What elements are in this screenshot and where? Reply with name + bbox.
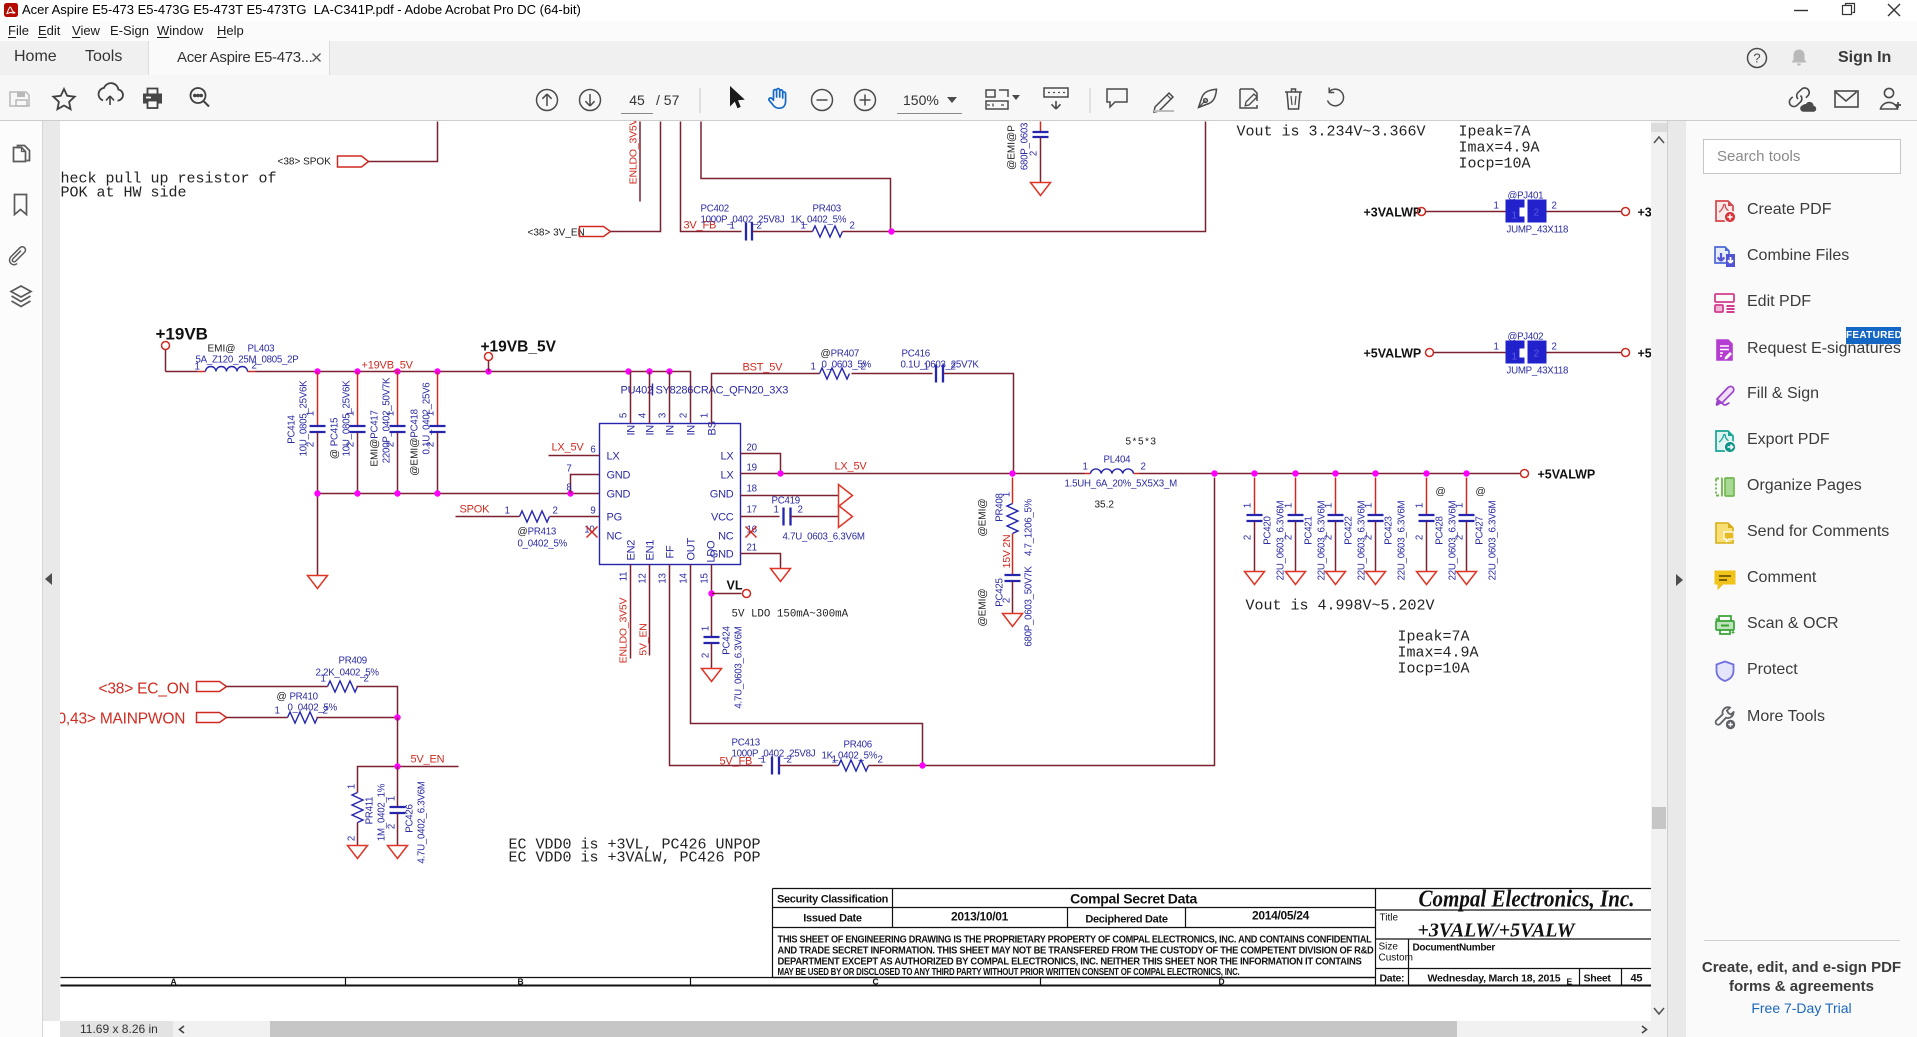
svg-text:1: 1 — [924, 362, 929, 373]
capacitor PC427 — [1455, 478, 1499, 585]
note 5V LDO — [732, 609, 849, 621]
off-page connector EC_ON — [99, 681, 227, 698]
svg-text:1000P_0402_25V8J: 1000P_0402_25V8J — [732, 749, 816, 760]
wire pin21 + ground — [741, 554, 791, 582]
svg-text:GND: GND — [607, 470, 631, 482]
svg-text:PL404: PL404 — [1104, 455, 1132, 466]
svg-text:45: 45 — [629, 92, 645, 108]
off-page connector MAINPWON — [58, 711, 227, 728]
ground PR411 — [348, 846, 368, 859]
svg-text:45: 45 — [1631, 973, 1643, 985]
svg-text:Date:: Date: — [1380, 973, 1405, 985]
capacitor PC417 — [370, 372, 406, 494]
svg-text:BS: BS — [707, 421, 719, 435]
svg-text:1: 1 — [1512, 352, 1518, 363]
svg-text:IN: IN — [645, 425, 657, 436]
svg-text:@ PR410: @ PR410 — [277, 692, 319, 703]
svg-text:Compal Secret Data: Compal Secret Data — [1070, 891, 1197, 907]
svg-text:2: 2 — [252, 361, 257, 372]
svg-text:EN2: EN2 — [626, 540, 638, 561]
capacitor PC419 + VCC arrow — [741, 496, 865, 543]
wire SPOK — [369, 122, 438, 162]
svg-text:1: 1 — [774, 505, 779, 516]
inductor PL404 — [1065, 437, 1178, 511]
capacitor PC424 — [701, 625, 745, 708]
svg-text:1: 1 — [505, 506, 510, 517]
svg-text:2: 2 — [1415, 535, 1426, 540]
capacitor PC421 — [1284, 478, 1328, 585]
svg-text:THIS SHEET OF ENGINEERING DRAW: THIS SHEET OF ENGINEERING DRAWING IS THE… — [778, 935, 1372, 946]
svg-text:1: 1 — [321, 674, 326, 685]
resistor PR406 — [822, 740, 883, 772]
svg-text:ENLDO_3V5V: ENLDO_3V5V — [628, 121, 640, 184]
svg-text:680P_0603_50V7K: 680P_0603_50V7K — [1024, 566, 1035, 647]
svg-text:1: 1 — [1324, 503, 1335, 508]
svg-text:E: E — [1567, 977, 1573, 987]
svg-text:1: 1 — [730, 221, 735, 232]
power node +5VALWP rail — [1521, 468, 1596, 482]
jumper @PJ402 — [1364, 332, 1661, 377]
svg-text:IN: IN — [626, 425, 638, 436]
BST net: pin1 + resistor @PR407 + capacitor PC416 — [712, 349, 1014, 474]
svg-text:2014/05/24: 2014/05/24 — [1252, 909, 1310, 923]
svg-text:1: 1 — [832, 755, 837, 766]
svg-text:PC428: PC428 — [1435, 516, 1446, 544]
svg-text:+19VB_5V: +19VB_5V — [362, 360, 414, 372]
svg-text:1000P_0402_25V8J: 1000P_0402_25V8J — [701, 215, 785, 226]
svg-text:2: 2 — [346, 442, 357, 447]
svg-text:20: 20 — [747, 443, 758, 454]
svg-text:4.7U_0603_6.3V6M: 4.7U_0603_6.3V6M — [783, 532, 865, 543]
svg-text:+5V: +5V — [1638, 347, 1652, 361]
ground PC426 — [388, 846, 408, 859]
svg-text:FF: FF — [665, 545, 677, 558]
svg-text:Vout is 4.998V~5.202V: Vout is 4.998V~5.202V — [1246, 598, 1435, 615]
capacitor PC422 — [1324, 478, 1368, 585]
svg-text:1: 1 — [426, 411, 437, 416]
svg-text:13: 13 — [658, 573, 669, 583]
svg-text:1.5UH_6A_20%_5X5X3_M: 1.5UH_6A_20%_5X5X3_M — [1065, 479, 1178, 490]
svg-text:A: A — [171, 977, 177, 987]
svg-text:2: 2 — [426, 442, 437, 447]
wire +19VB rail — [166, 368, 691, 423]
svg-text:Iocp=10A: Iocp=10A — [1398, 661, 1470, 678]
svg-text:Imax=4.9A: Imax=4.9A — [1398, 645, 1479, 662]
title block — [773, 889, 1656, 986]
svg-text:1: 1 — [701, 626, 712, 631]
svg-text:1: 1 — [1415, 503, 1426, 508]
svg-text:2: 2 — [1552, 201, 1557, 212]
svg-text:8: 8 — [566, 483, 571, 494]
svg-text:Size: Size — [1379, 942, 1399, 953]
svg-text:4: 4 — [638, 412, 649, 418]
svg-text:PC422: PC422 — [1344, 516, 1355, 544]
svg-text:2: 2 — [387, 824, 398, 829]
svg-text:2: 2 — [1455, 535, 1466, 540]
svg-text:Compal Electronics, Inc.: Compal Electronics, Inc. — [1419, 887, 1635, 913]
svg-text:1: 1 — [1455, 503, 1466, 508]
svg-text:+5VALWP: +5VALWP — [1538, 468, 1596, 482]
svg-text:1: 1 — [346, 411, 357, 416]
svg-text:1: 1 — [1364, 503, 1375, 508]
wire pin14 OUT — [691, 565, 923, 766]
capacitor PC426 — [387, 767, 428, 864]
capacitor PC420 — [1243, 478, 1287, 585]
svg-text:2: 2 — [553, 506, 558, 517]
svg-text:5: 5 — [619, 413, 630, 418]
power node +19VB — [156, 325, 208, 372]
IC PU402 SY8286CRAC — [600, 384, 789, 565]
svg-text:@EMI@: @EMI@ — [978, 498, 989, 536]
net label LX_5V pin6 — [549, 442, 600, 456]
svg-text:@EMI@: @EMI@ — [978, 588, 989, 626]
svg-text:Security Classification: Security Classification — [777, 894, 889, 906]
svg-text:2: 2 — [323, 706, 328, 717]
svg-text:2: 2 — [951, 362, 956, 373]
svg-text:EC VDD0 is +3VALW, PC426 POP: EC VDD0 is +3VALW, PC426 POP — [509, 850, 761, 867]
svg-text:5A_Z120_25M_0805_2P: 5A_Z120_25M_0805_2P — [196, 355, 299, 366]
svg-text:1: 1 — [386, 411, 397, 416]
svg-text:1: 1 — [1494, 201, 1499, 212]
jumper @PJ401 — [1364, 191, 1661, 236]
svg-text:C: C — [873, 977, 879, 987]
page border zones — [61, 977, 1656, 987]
resistor PR411 — [347, 783, 388, 845]
net stub ENLDO_3V5V — [628, 118, 641, 201]
net label SPOK + resistor @PR413 — [456, 504, 600, 550]
resistor @PR410 — [227, 692, 401, 724]
svg-text:1: 1 — [1512, 211, 1518, 222]
svg-text:JUMP_43X118: JUMP_43X118 — [1507, 225, 1569, 236]
svg-text:@EMI@PC418: @EMI@PC418 — [410, 409, 421, 475]
svg-text:5V_EN: 5V_EN — [638, 623, 650, 655]
svg-text:2: 2 — [1141, 462, 1146, 473]
svg-text:GND: GND — [710, 489, 734, 501]
svg-text:2: 2 — [798, 505, 803, 516]
wire feedback to rail — [869, 478, 1215, 769]
svg-text:2: 2 — [364, 674, 369, 685]
svg-text:2: 2 — [306, 442, 317, 447]
svg-text:680P_0603: 680P_0603 — [1020, 123, 1031, 170]
pin12 stub 5V_EN — [638, 565, 650, 656]
svg-text:VL: VL — [727, 579, 743, 593]
svg-text:DocumentNumber: DocumentNumber — [1413, 943, 1496, 954]
svg-text:5V_EN: 5V_EN — [411, 754, 445, 766]
svg-text:SY8286CRAC_QFN20_3X3: SY8286CRAC_QFN20_3X3 — [656, 385, 789, 397]
ground top cap — [1031, 183, 1051, 196]
svg-text:14: 14 — [679, 573, 690, 584]
svg-text:<38> SPOK: <38> SPOK — [278, 157, 332, 168]
svg-text:PR409: PR409 — [339, 656, 367, 667]
svg-text:Wednesday, March 18, 2015: Wednesday, March 18, 2015 — [1428, 973, 1561, 985]
collapse arrow right — [1674, 573, 1684, 587]
svg-text:1: 1 — [347, 784, 358, 789]
svg-text:3: 3 — [658, 413, 669, 418]
svg-text:21: 21 — [747, 543, 757, 554]
svg-text:PL403: PL403 — [248, 344, 275, 355]
svg-text:SPOK: SPOK — [460, 504, 491, 516]
svg-text:@PR407: @PR407 — [821, 349, 860, 360]
capacitor @EMI@ 680P top — [1007, 122, 1049, 183]
capacitor PC423 — [1364, 478, 1408, 585]
svg-text:+5VALWP: +5VALWP — [1364, 347, 1422, 361]
wire GND bus — [314, 490, 599, 575]
capacitor PC418 — [410, 372, 446, 494]
net 5V_EN junction — [358, 718, 459, 793]
wire PR403 right + feedback top — [701, 122, 1206, 235]
svg-text:1: 1 — [1243, 503, 1254, 508]
svg-text:2: 2 — [386, 442, 397, 447]
svg-text:1: 1 — [801, 221, 806, 232]
wire pin13 FF feedback — [670, 565, 763, 766]
svg-text:22U_0603_6.3V6M: 22U_0603_6.3V6M — [1488, 500, 1499, 580]
svg-text:2: 2 — [347, 836, 358, 841]
svg-text:2: 2 — [1284, 535, 1295, 540]
svg-text:5V LDO 150mA~300mA: 5V LDO 150mA~300mA — [732, 609, 849, 621]
svg-text:PU402: PU402 — [621, 385, 654, 397]
svg-text:PC426: PC426 — [405, 804, 416, 832]
svg-text:19: 19 — [747, 463, 757, 474]
svg-text:NC: NC — [718, 531, 734, 543]
svg-text:35.2: 35.2 — [1095, 500, 1115, 511]
svg-text:Ipeak=7A: Ipeak=7A — [1398, 629, 1470, 646]
inductor PL403 — [195, 344, 299, 373]
svg-text:12: 12 — [638, 573, 649, 583]
svg-text:LX: LX — [721, 470, 735, 482]
svg-text:@PR413: @PR413 — [518, 527, 557, 538]
svg-text:4.7U_0402_6.3V6M: 4.7U_0402_6.3V6M — [417, 781, 428, 863]
svg-text:2: 2 — [1243, 535, 1254, 540]
svg-text:4.7U_0603_6.3V6M: 4.7U_0603_6.3V6M — [734, 626, 745, 708]
svg-text:PC402: PC402 — [701, 204, 729, 215]
svg-text:2: 2 — [701, 653, 712, 658]
ground PC425 — [1003, 614, 1023, 627]
svg-text:4.7_1206_5%: 4.7_1206_5% — [1024, 498, 1035, 556]
svg-text:1: 1 — [1083, 462, 1088, 473]
power node +19VB_5V — [481, 339, 557, 372]
svg-text:1: 1 — [1284, 503, 1295, 508]
svg-text:5*5*3: 5*5*3 — [1126, 437, 1158, 448]
net label 15V_2N — [1001, 534, 1013, 575]
note EC VDD0 — [509, 837, 761, 867]
off-page connector SPOK — [278, 156, 369, 168]
net label 5V_FB — [720, 756, 753, 768]
svg-text:2: 2 — [878, 755, 883, 766]
wire pin18 GND arrow — [741, 485, 853, 507]
svg-text:PR411: PR411 — [365, 797, 376, 825]
svg-text:LX_5V: LX_5V — [835, 461, 868, 473]
svg-text:1M_0402_1%: 1M_0402_1% — [377, 783, 388, 841]
svg-text:+19VB_5V: +19VB_5V — [481, 339, 557, 356]
svg-text:2: 2 — [1029, 151, 1040, 156]
svg-text:NC: NC — [607, 531, 623, 543]
note: check pull up resistor — [52, 171, 277, 202]
svg-text:@: @ — [1476, 487, 1486, 498]
svg-text:Custom: Custom — [1379, 953, 1413, 964]
capacitor PC413 — [732, 738, 839, 775]
resistor PR409 — [227, 656, 398, 718]
capacitor PC402 — [701, 204, 785, 241]
capacitor PC428 — [1415, 478, 1459, 585]
svg-text:2: 2 — [1364, 535, 1375, 540]
off-page connector 3V_EN — [528, 227, 611, 239]
svg-text:Title: Title — [1380, 913, 1399, 924]
NC pin X marks — [587, 527, 757, 538]
wire pin20 hook — [741, 454, 781, 474]
svg-text:LX: LX — [607, 451, 621, 463]
svg-text:JUMP_43X118: JUMP_43X118 — [1507, 366, 1569, 377]
svg-text:Iocp=10A: Iocp=10A — [1459, 156, 1531, 173]
svg-text:EN1: EN1 — [645, 540, 657, 561]
svg-text:2: 2 — [787, 755, 792, 766]
svg-text:@EMI@P: @EMI@P — [1007, 125, 1018, 170]
svg-text:2: 2 — [1552, 342, 1557, 353]
note Vout 4.998 — [1246, 598, 1435, 615]
svg-text:AND TRADE SECRET INFORMATION.: AND TRADE SECRET INFORMATION. THIS SHEET… — [778, 946, 1374, 957]
wire pin7 GND — [571, 475, 600, 494]
capacitor PC414 — [287, 372, 326, 494]
svg-text:@: @ — [1436, 487, 1446, 498]
svg-text:1K_0402_5%: 1K_0402_5% — [822, 751, 878, 762]
svg-text:150%: 150% — [903, 92, 939, 108]
resistor PR408 chain — [978, 478, 1035, 557]
wire 3V_EN — [611, 122, 661, 232]
svg-text:Sheet: Sheet — [1584, 973, 1612, 985]
svg-text:Imax=4.9A: Imax=4.9A — [1459, 140, 1540, 157]
svg-text:ENLDO_3V5V: ENLDO_3V5V — [618, 597, 630, 663]
svg-text:<38> EC_ON: <38> EC_ON — [99, 681, 190, 698]
svg-text:2: 2 — [1534, 208, 1540, 219]
svg-text:IN: IN — [686, 425, 698, 436]
wire 3V_FB — [681, 122, 742, 232]
svg-text:1: 1 — [387, 796, 398, 801]
resistor PR403 — [791, 204, 855, 238]
IC bottom pin numbers — [619, 572, 711, 584]
note Ipeak bottom — [1398, 629, 1479, 678]
svg-text:18: 18 — [747, 484, 757, 495]
svg-text:11: 11 — [619, 572, 630, 582]
svg-text:@ PC415: @ PC415 — [330, 418, 341, 459]
svg-text:+19VB: +19VB — [156, 325, 208, 344]
svg-text:2: 2 — [850, 221, 855, 232]
svg-text:2: 2 — [679, 413, 690, 418]
title block text — [777, 887, 1642, 985]
svg-text:?: ? — [1753, 51, 1760, 66]
svg-text:PC423: PC423 — [1384, 516, 1395, 544]
svg-text:EMI@PC417: EMI@PC417 — [370, 410, 381, 466]
svg-text:PC414: PC414 — [287, 414, 298, 443]
capacitor PC415 — [330, 372, 366, 494]
svg-text:OUT: OUT — [686, 538, 698, 561]
svg-text:BST_5V: BST_5V — [743, 362, 784, 374]
svg-text:+3V: +3V — [1638, 206, 1652, 220]
svg-text:+3VALWP: +3VALWP — [1364, 206, 1422, 220]
svg-text:IN: IN — [665, 425, 677, 436]
svg-text:<38> 3V_EN: <38> 3V_EN — [528, 228, 585, 239]
svg-text:MAY BE USED BY OR DISCLOSED TO: MAY BE USED BY OR DISCLOSED TO ANY THIRD… — [778, 967, 1240, 978]
svg-text:15: 15 — [700, 573, 711, 583]
svg-text:DEPARTMENT EXCEPT AS AUTHORIZE: DEPARTMENT EXCEPT AS AUTHORIZED BY COMPA… — [778, 957, 1363, 968]
svg-text:9: 9 — [590, 506, 595, 517]
collapse arrow left — [44, 572, 54, 586]
wire LX_5V rail — [741, 461, 1521, 477]
svg-text:2200P_0402_50V7K: 2200P_0402_50V7K — [382, 377, 393, 463]
svg-text:GND: GND — [607, 489, 631, 501]
note Vout 3.234V — [1237, 124, 1426, 141]
svg-text:1: 1 — [1494, 342, 1499, 353]
svg-text:PC420: PC420 — [1263, 515, 1274, 544]
svg-text:2: 2 — [861, 362, 866, 373]
svg-text:Issued Date: Issued Date — [803, 913, 862, 925]
svg-text:PC427: PC427 — [1475, 516, 1486, 544]
ground PC424 — [702, 669, 722, 682]
svg-text:PC413: PC413 — [732, 738, 760, 749]
svg-text:1: 1 — [275, 706, 280, 717]
svg-text:2: 2 — [1534, 349, 1540, 360]
svg-text:VCC: VCC — [711, 512, 734, 524]
svg-text:Vout is 3.234V~3.366V: Vout is 3.234V~3.366V — [1237, 124, 1426, 141]
svg-text:7: 7 — [566, 464, 571, 475]
IC side pin numbers — [566, 443, 757, 554]
svg-text:D: D — [1219, 977, 1225, 987]
svg-text:1: 1 — [306, 411, 317, 416]
svg-text:1: 1 — [761, 755, 766, 766]
svg-text:LX_5V: LX_5V — [552, 442, 585, 454]
capacitor PC425 — [978, 566, 1035, 647]
svg-text:LX: LX — [721, 451, 735, 463]
svg-text:PR406: PR406 — [844, 740, 872, 751]
svg-text:/ 57: / 57 — [656, 92, 680, 108]
svg-text:SPOK at HW side: SPOK at HW side — [60, 185, 187, 202]
net label +19VB_5V red — [362, 360, 414, 372]
svg-text:1: 1 — [811, 362, 816, 373]
svg-text:EMI@: EMI@ — [208, 344, 236, 355]
svg-text:PC421: PC421 — [1304, 516, 1315, 544]
svg-text:22U_0603_6.3V6M: 22U_0603_6.3V6M — [1397, 500, 1408, 580]
svg-text:0_0402_5%: 0_0402_5% — [288, 703, 338, 714]
svg-text:PC416: PC416 — [902, 349, 930, 360]
svg-text:2013/10/01: 2013/10/01 — [951, 910, 1009, 924]
svg-text:PG: PG — [607, 512, 622, 524]
svg-text:0_0402_5%: 0_0402_5% — [518, 539, 568, 550]
svg-text:2: 2 — [757, 221, 762, 232]
pin11 stub ENLDO_3V5V — [618, 565, 631, 664]
svg-text:Ipeak=7A: Ipeak=7A — [1459, 124, 1531, 141]
svg-text:PR408: PR408 — [995, 493, 1006, 521]
IC top pin wires — [619, 372, 711, 424]
ground cap bank — [308, 576, 328, 589]
note Ipeak top — [1459, 124, 1540, 173]
svg-text:2: 2 — [1002, 598, 1013, 603]
svg-text:17: 17 — [747, 505, 757, 516]
svg-text:+3VALW/+5VALW: +3VALW/+5VALW — [1418, 920, 1576, 942]
svg-text:B: B — [518, 977, 524, 987]
svg-text:0,43> MAINPWON: 0,43> MAINPWON — [60, 711, 185, 728]
svg-text:6: 6 — [590, 445, 595, 456]
svg-text:Deciphered Date: Deciphered Date — [1085, 914, 1167, 926]
svg-text:PC424: PC424 — [722, 625, 733, 654]
net VL: pin15 — [708, 565, 750, 637]
svg-text:0.1U_0603_25V7K: 0.1U_0603_25V7K — [901, 360, 980, 371]
wire PC402-PR403 — [753, 231, 813, 233]
svg-text:15V 2N: 15V 2N — [1001, 535, 1013, 569]
svg-text:PR403: PR403 — [813, 204, 841, 215]
svg-text:1: 1 — [700, 413, 711, 418]
svg-text:LDO: LDO — [706, 540, 718, 563]
sign-in row right — [1746, 47, 1768, 69]
svg-text:2: 2 — [1324, 535, 1335, 540]
svg-text:1K_0402_5%: 1K_0402_5% — [791, 215, 847, 226]
